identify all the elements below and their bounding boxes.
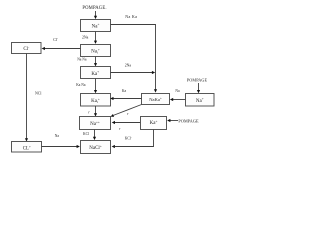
wire pompage2 to Ka* box	[167, 119, 178, 122]
label r (right)	[127, 112, 129, 116]
label KCl-	[125, 136, 132, 140]
label POMPAGE (right)	[187, 77, 208, 82]
label Na (bottom left)	[55, 134, 60, 138]
svg-text:Na Ka: Na Ka	[125, 14, 137, 19]
label POMPAGE (lower right)	[178, 118, 199, 123]
wire pompage to Na+ box	[94, 11, 97, 19]
label Na Ka	[125, 14, 137, 19]
label 2Na (right)	[125, 64, 132, 68]
svg-text:POMPAGE.: POMPAGE.	[82, 6, 106, 11]
svg-text:Na Na: Na Na	[77, 58, 87, 62]
wire CL box to NaCl box	[42, 145, 80, 148]
svg-text:POMPAGE: POMPAGE	[187, 77, 208, 82]
label Ka Na	[76, 83, 86, 87]
wire NaKa diagonal to E	[111, 105, 142, 117]
wire pompage to Na* box	[197, 83, 200, 93]
svg-text:Na: Na	[175, 89, 180, 93]
label Na (near NaKa)	[175, 89, 180, 93]
wire A to B	[94, 32, 97, 44]
label KCl	[83, 132, 89, 136]
svg-text:Cl-: Cl-	[53, 37, 58, 42]
svg-text:Na: Na	[55, 134, 60, 138]
wire D to E	[94, 106, 97, 117]
label t (below Ka* wire)	[119, 127, 121, 131]
svg-text:r: r	[88, 110, 90, 114]
box Ka* (K)	[141, 117, 167, 130]
box CL+ (H)	[12, 142, 42, 153]
label NCl	[35, 92, 42, 96]
wire Ka* box to E	[112, 121, 141, 124]
wire B to Cl box	[42, 47, 81, 50]
label Na Na	[77, 58, 87, 62]
box Ka+ (C)	[81, 67, 111, 79]
wire NaKa to D	[110, 97, 141, 100]
box Na+ (A)	[81, 20, 111, 32]
wire B to C	[94, 57, 97, 67]
wire Na* box to NaKa box	[170, 98, 186, 101]
svg-text:NCl: NCl	[35, 92, 42, 96]
box Na* (J)	[186, 94, 215, 107]
label Ka (between D and NaKa)	[122, 89, 127, 93]
box Na++ (E)	[80, 117, 111, 130]
label r (left)	[88, 110, 90, 114]
svg-text:POMPAGE: POMPAGE	[178, 118, 199, 123]
wire Cl box down to CL box	[25, 54, 28, 142]
wire C right to junction	[111, 71, 156, 74]
label 2Na	[82, 35, 89, 39]
box NaKa+ (I)	[142, 94, 170, 105]
label Cl-	[53, 37, 58, 42]
svg-text:r: r	[127, 112, 129, 116]
wire A right then down to NaKa box	[111, 25, 158, 93]
box Nai+ (B)	[81, 45, 111, 57]
box Cl- (G)	[12, 43, 42, 54]
box NaCl+ (F)	[81, 141, 111, 154]
label POMPAGE (top)	[82, 6, 106, 11]
svg-text:2Na: 2Na	[125, 64, 132, 68]
svg-text:Ka Na: Ka Na	[76, 83, 86, 87]
wire Ka* down then left to NaCl box	[112, 130, 154, 149]
box Kai+ (D)	[81, 94, 111, 107]
svg-text:Ka: Ka	[122, 89, 127, 93]
svg-text:r: r	[119, 127, 121, 131]
svg-text:KCl: KCl	[83, 132, 89, 136]
svg-text:KCl-: KCl-	[125, 136, 132, 140]
svg-text:2Na: 2Na	[82, 35, 89, 39]
wire C to D	[94, 79, 97, 94]
wire E to F	[93, 130, 96, 141]
